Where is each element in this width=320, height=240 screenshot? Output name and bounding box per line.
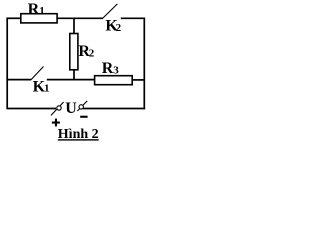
wire [121, 17, 145, 19]
resistor R2 [70, 34, 78, 70]
svg-text:R: R [28, 1, 40, 18]
svg-text:2: 2 [116, 22, 122, 34]
wire [73, 70, 75, 80]
svg-text:1: 1 [39, 5, 45, 17]
wire [47, 79, 95, 81]
wire [6, 79, 31, 81]
svg-text:3: 3 [113, 64, 119, 76]
svg-text:U: U [65, 100, 77, 117]
wire [143, 18, 145, 109]
svg-text:2: 2 [89, 48, 95, 60]
node A [73, 18, 75, 34]
svg-text:Hình 2: Hình 2 [58, 127, 99, 142]
wire [6, 108, 56, 110]
svg-text:R: R [102, 60, 114, 77]
polarity minus [80, 116, 87, 118]
wire [57, 17, 103, 19]
svg-text:1: 1 [44, 83, 50, 95]
wire [132, 79, 145, 81]
resistor R1 [21, 14, 57, 23]
source U left terminal [51, 102, 64, 115]
switch K2 [103, 4, 118, 19]
switch K1 [31, 67, 44, 80]
wire [6, 17, 20, 19]
wire [83, 108, 145, 110]
resistor R3 [95, 76, 133, 85]
wire [6, 18, 8, 108]
polarity plus [52, 122, 60, 124]
source U right terminal [77, 101, 87, 111]
